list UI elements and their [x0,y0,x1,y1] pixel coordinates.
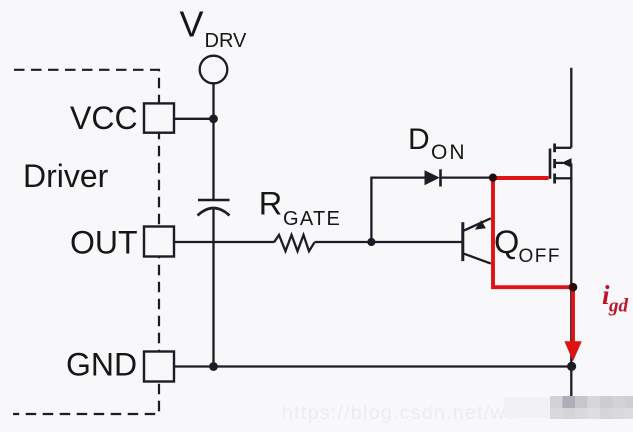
Q_OFF collector line [464,254,491,264]
Q_OFF emitter line [464,218,491,230]
capacitor C (decoupling) [198,199,230,202]
VDRV supply circle [200,56,228,84]
GND rail wire [174,365,572,367]
wire VCC to VDRV node [173,118,214,120]
svg-text:DRV: DRV [205,30,248,52]
pin square VCC [144,103,174,132]
svg-text:gd: gd [608,296,629,317]
diode D_ON cathode bar [439,169,442,186]
MOSFET source stub [556,177,572,179]
MOSFET U1 gate bar [549,149,552,179]
wire VDRV circle down to capacitor [212,84,214,200]
node dot at VCC/VDRV junction [209,114,218,123]
MOSFET source vertical wire down to bottom [570,164,572,398]
svg-text:V: V [180,4,204,45]
pin square GND [144,352,174,382]
driver block dashed border [13,70,159,414]
transistor Q_OFF base bar [461,222,464,261]
MOSFET body stub [555,162,563,164]
node dot after R_GATE [367,238,375,246]
svg-text:Q: Q [494,224,519,260]
svg-text:GATE: GATE [283,208,341,230]
svg-text:GND: GND [66,347,137,383]
svg-text:OFF: OFF [519,246,562,267]
node dot source/GND junction [567,362,576,371]
red arrowhead [564,341,581,361]
wire OUT to Q_OFF base through R_GATE [174,241,274,243]
red current path i_gd [493,178,573,344]
svg-text:ON: ON [431,141,467,164]
MOSFET channel segment source [553,174,556,184]
node dot at gate junction [489,174,497,182]
wire diode cathode to gate node [440,176,493,178]
wire capacitor down to GND rail [212,208,214,367]
MOSFET drain stub [556,147,572,149]
pin square OUT [144,227,174,257]
red node dot on source line [569,283,578,292]
svg-text:Driver: Driver [23,158,109,194]
censor mosaic [504,396,633,419]
MOSFET body arrow [561,158,571,168]
resistor R_GATE zigzag [274,235,315,251]
svg-text:R: R [259,185,282,221]
Q_OFF emitter arrow (PNP) [475,220,486,229]
wire node to diode anode [371,178,424,242]
MOSFET drain vertical wire [570,68,572,148]
svg-text:OUT: OUT [70,225,138,261]
MOSFET channel segment body [553,159,556,168]
svg-text:D: D [408,123,430,156]
diode D_ON triangle [425,170,440,185]
svg-text:VCC: VCC [70,100,138,136]
MOSFET channel segment drain [553,144,556,153]
svg-text:https://blog.csdn.net/we: https://blog.csdn.net/we [282,402,518,424]
node dot cap/GND junction [209,362,218,371]
